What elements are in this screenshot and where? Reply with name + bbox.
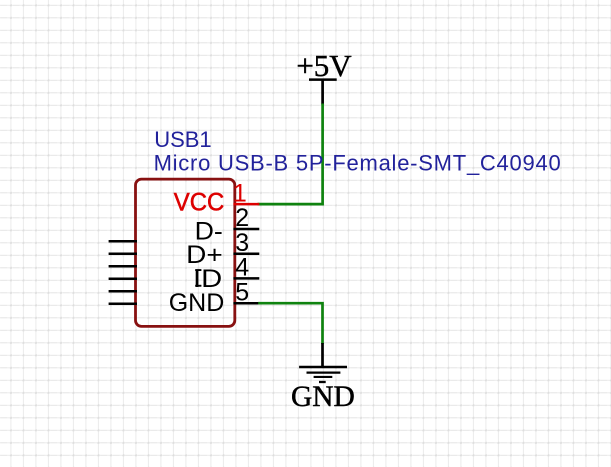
shield pin stub 3 (left): [109, 265, 137, 268]
shield pin stub 5 (left): [109, 290, 137, 293]
ground symbol bar 3: [314, 376, 333, 378]
ground symbol bar 2: [307, 371, 341, 373]
shield pin stub 6 (left): [109, 302, 137, 305]
svg-text:5: 5: [235, 278, 249, 306]
pin name ID serif bottom: [195, 285, 201, 287]
wire pin 5 to GND (net GND): [258, 303, 322, 344]
shield pin stub 1 (left): [109, 240, 137, 243]
pin 3 stub: [233, 252, 259, 255]
ground symbol stem: [321, 343, 324, 367]
component USB1 body: [136, 179, 235, 326]
svg-text:VCC: VCC: [174, 188, 225, 216]
pin 4 stub: [233, 277, 259, 280]
power flag +5V bar: [309, 78, 337, 81]
pin 5 stub: [233, 302, 259, 305]
ground symbol bar 1: [299, 366, 347, 369]
svg-text:GND: GND: [291, 381, 355, 413]
shield pin stub 2 (left): [109, 252, 137, 255]
ground symbol bar 4: [319, 381, 326, 383]
svg-text:GND: GND: [169, 289, 225, 317]
svg-text:Micro USB-B 5P-Female-SMT_C409: Micro USB-B 5P-Female-SMT_C40940: [154, 151, 562, 176]
wire +5V to pin 1 (net +5V): [258, 104, 323, 205]
svg-text:USB1: USB1: [154, 127, 211, 152]
pin name ID serif top: [195, 269, 201, 271]
svg-text:+5V: +5V: [296, 48, 352, 83]
pin 2 stub: [233, 228, 259, 231]
pin 1 VCC stub (red, highlighted): [233, 203, 259, 206]
shield pin stub 4 (left): [109, 277, 137, 280]
power flag +5V stem: [321, 80, 324, 105]
svg-text:4: 4: [235, 254, 249, 282]
